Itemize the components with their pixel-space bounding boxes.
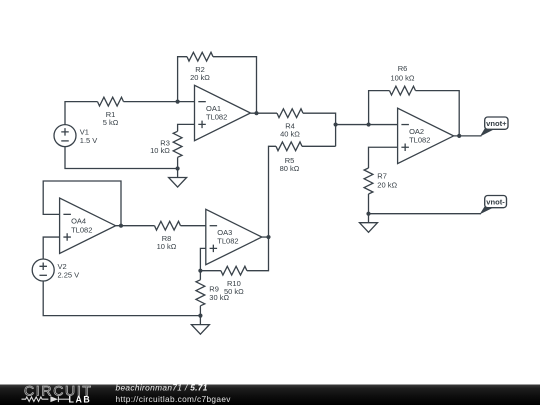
resistor R4 [277, 109, 303, 118]
node [366, 212, 370, 216]
svg-text:OA1: OA1 [206, 104, 221, 113]
op-amp OA4 [60, 198, 116, 253]
wire [65, 102, 98, 125]
node [266, 235, 270, 239]
svg-text:80 kΩ: 80 kΩ [280, 164, 300, 173]
svg-text:TL082: TL082 [217, 237, 238, 246]
voltage source V1 [54, 125, 76, 147]
resistor R8 [155, 221, 181, 230]
wire [369, 91, 390, 125]
svg-text:vnot+: vnot+ [486, 119, 507, 128]
ground [360, 214, 378, 233]
voltage source V2 [32, 259, 54, 281]
wire [303, 113, 336, 146]
wire [43, 281, 200, 316]
node [119, 224, 123, 228]
ground [191, 316, 209, 335]
wire [199, 271, 201, 280]
flag vnot- [480, 196, 507, 215]
wire [178, 124, 195, 131]
node [457, 134, 461, 138]
svg-text:LAB: LAB [69, 394, 92, 404]
wire [247, 237, 269, 271]
wire [199, 306, 201, 316]
wire [200, 270, 221, 272]
wire [65, 147, 178, 169]
resistor R3 [173, 131, 182, 157]
svg-text:2.25 V: 2.25 V [58, 270, 80, 279]
wire [43, 237, 59, 259]
wire [116, 225, 155, 227]
svg-text:100 kΩ: 100 kΩ [391, 73, 415, 82]
footer bar [0, 385, 540, 405]
wire [181, 225, 206, 227]
svg-text:OA4: OA4 [71, 217, 86, 226]
node [198, 269, 202, 273]
wire [178, 57, 187, 102]
node [176, 100, 180, 104]
svg-text:10 kΩ: 10 kΩ [150, 146, 170, 155]
svg-text:OA3: OA3 [217, 228, 232, 237]
node [176, 166, 180, 170]
resistor R6 [390, 86, 416, 95]
svg-text:50 kΩ: 50 kΩ [224, 287, 244, 296]
node [254, 111, 258, 115]
logo resistor-diode glyph [22, 396, 70, 402]
svg-text:TL082: TL082 [409, 136, 430, 145]
svg-text:TL082: TL082 [71, 225, 92, 234]
resistor R9 [196, 280, 205, 306]
resistor R7 [364, 168, 373, 194]
node [198, 314, 202, 318]
svg-text:R6: R6 [398, 64, 408, 73]
resistor R2 [187, 52, 213, 61]
wire [269, 146, 277, 237]
svg-text:OA2: OA2 [409, 127, 424, 136]
flag vnot+ [480, 117, 508, 137]
wire [251, 112, 278, 114]
svg-text:20 kΩ: 20 kΩ [190, 73, 210, 82]
ground [169, 169, 187, 188]
op-amp OA1 [195, 85, 251, 140]
wire [213, 57, 257, 113]
wire [368, 194, 370, 214]
op-amp OA2 [398, 108, 454, 163]
wire [336, 124, 398, 126]
svg-text:V1: V1 [80, 127, 89, 136]
svg-text:20 kΩ: 20 kΩ [377, 181, 397, 190]
svg-text:beachironman71 / 5.71: beachironman71 / 5.71 [116, 383, 208, 393]
svg-text:http://circuitlab.com/c7bgaev: http://circuitlab.com/c7bgaev [116, 394, 232, 404]
wire [200, 248, 205, 270]
resistor R5 [276, 142, 302, 151]
wire [369, 147, 398, 168]
wire [416, 91, 460, 136]
op-amp OA3 [206, 209, 262, 264]
wire [177, 157, 179, 168]
svg-text:vnot-: vnot- [486, 197, 505, 206]
resistor R1 [98, 97, 124, 106]
svg-text:5 kΩ: 5 kΩ [103, 118, 119, 127]
wire [454, 135, 482, 137]
svg-text:10 kΩ: 10 kΩ [157, 242, 177, 251]
svg-text:TL082: TL082 [206, 113, 227, 122]
node [367, 122, 371, 126]
wire [43, 181, 121, 226]
wire [124, 101, 195, 103]
node [334, 122, 338, 126]
wire [302, 145, 336, 147]
svg-text:R7: R7 [377, 172, 387, 181]
wire [369, 213, 482, 215]
resistor R10 [221, 266, 247, 275]
svg-text:1.5 V: 1.5 V [80, 136, 98, 145]
wire [262, 236, 269, 238]
svg-text:40 kΩ: 40 kΩ [280, 130, 300, 139]
